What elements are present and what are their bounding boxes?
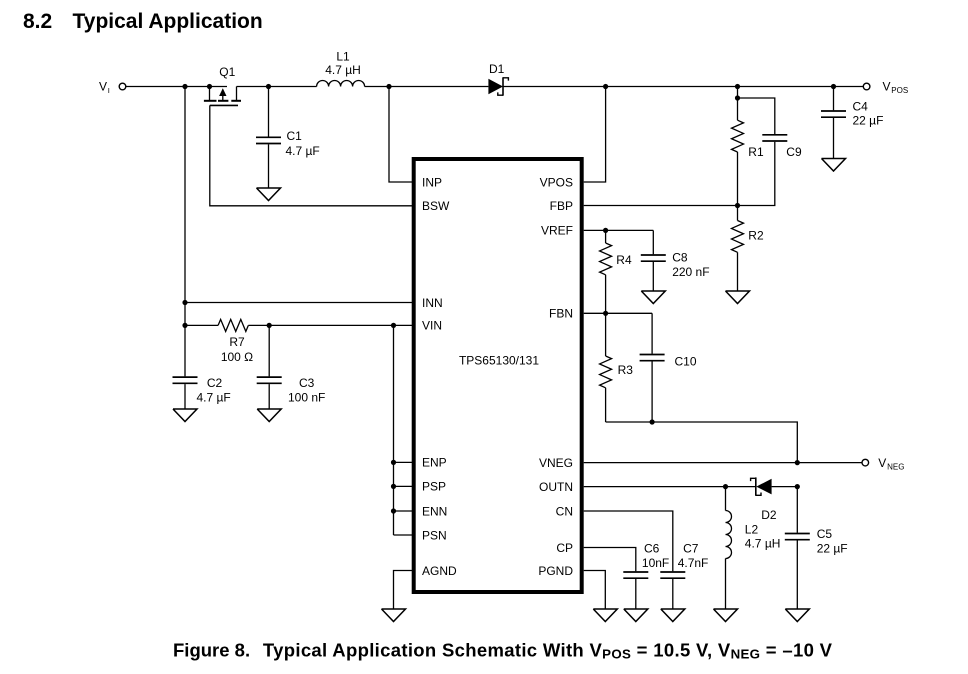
svg-text:220 nF: 220 nF	[672, 265, 709, 279]
svg-text:V: V	[883, 80, 891, 94]
figure caption	[173, 639, 833, 661]
svg-text:PSN: PSN	[422, 528, 447, 542]
section heading 8.2 Typical Application	[23, 10, 263, 33]
ground below R2	[726, 291, 750, 304]
wire D2 anode to VNEG node	[772, 486, 798, 488]
resistor R7	[218, 319, 253, 364]
transistor Q1 PMOS	[204, 65, 241, 105]
node VNEG output terminal	[862, 456, 904, 472]
svg-text:D2: D2	[761, 508, 777, 522]
svg-text:VREF: VREF	[541, 224, 573, 238]
ground below C1	[257, 188, 281, 201]
svg-text:4.7nF: 4.7nF	[678, 556, 709, 570]
svg-text:C2: C2	[207, 376, 223, 390]
ground below C2	[173, 409, 197, 422]
wire PSP stub	[394, 485, 414, 487]
junction dot VIN tee	[182, 323, 187, 328]
wire CN pin to C7	[584, 511, 673, 571]
svg-text:8.2: 8.2	[23, 10, 52, 33]
svg-text:4.7 µH: 4.7 µH	[745, 537, 781, 551]
wire enable branch vertical	[393, 325, 395, 535]
svg-text:VNEG: VNEG	[539, 456, 573, 470]
wire VIN rail left	[185, 324, 218, 326]
svg-text:V: V	[878, 456, 886, 470]
svg-text:C4: C4	[853, 100, 869, 114]
ground AGND	[382, 609, 406, 622]
inductor L2	[726, 487, 781, 609]
wire Vi branch vertical	[184, 87, 186, 377]
svg-text:PSP: PSP	[422, 480, 446, 494]
junction dot FBP node	[735, 203, 740, 208]
junction dot VPOS pin branch	[603, 84, 608, 89]
wire VREF pin rail	[584, 229, 654, 231]
junction dot C9 split	[735, 95, 740, 100]
junction dot VREF R4	[603, 228, 608, 233]
wire VNEG pin rail	[584, 462, 863, 464]
wire FBN network to VNEG node	[606, 422, 798, 463]
wire FBN pin rail	[584, 312, 652, 314]
wire INN pin rail	[185, 302, 414, 304]
svg-text:22 µF: 22 µF	[817, 542, 848, 556]
svg-text:TPS65130/131: TPS65130/131	[459, 354, 539, 368]
IC U1 right pin labels	[538, 175, 573, 578]
wire ENN stub	[394, 510, 414, 512]
junction dot INN tee	[182, 300, 187, 305]
svg-text:CP: CP	[556, 541, 573, 555]
wire FBP pin rail	[584, 205, 738, 207]
svg-text:C9: C9	[786, 145, 802, 159]
svg-text:OUTN: OUTN	[539, 480, 573, 494]
IC U1 left pin labels	[422, 175, 457, 578]
svg-text:10nF: 10nF	[642, 556, 669, 570]
junction dot ENP	[391, 460, 396, 465]
svg-text:L1: L1	[336, 50, 350, 64]
svg-text:Q1: Q1	[219, 65, 235, 79]
wire ENP stub	[394, 461, 414, 463]
ground below C6	[624, 609, 648, 622]
ground PGND	[593, 609, 617, 622]
resistor R1	[732, 120, 764, 159]
capacitor C7	[660, 542, 708, 610]
wire VPOS pin to top rail	[584, 87, 606, 183]
svg-text:R7: R7	[229, 335, 245, 349]
inductor L1	[317, 50, 365, 87]
diode D2 schottky	[751, 477, 777, 522]
svg-text:V: V	[99, 80, 107, 94]
svg-text:CN: CN	[556, 504, 573, 518]
svg-text:FBP: FBP	[550, 199, 573, 213]
svg-text:22 µF: 22 µF	[853, 114, 884, 128]
svg-text:PGND: PGND	[538, 564, 573, 578]
svg-text:4.7 µH: 4.7 µH	[325, 63, 361, 77]
capacitor C1	[256, 87, 320, 189]
capacitor C2	[173, 376, 231, 409]
ground below C4	[822, 159, 846, 172]
resistor R4	[600, 230, 632, 313]
junction dot VNEG node	[795, 460, 800, 465]
junction dot C10 bottom	[650, 419, 655, 424]
junction dot Q1 source	[207, 84, 212, 89]
svg-text:INP: INP	[422, 175, 442, 189]
svg-text:VIN: VIN	[422, 319, 442, 333]
junction dot C4 branch	[831, 84, 836, 89]
wire PGND pin to ground	[584, 571, 606, 610]
resistor R2	[732, 206, 764, 292]
junction dot R1 branch	[735, 84, 740, 89]
svg-text:C3: C3	[299, 376, 315, 390]
svg-text:R4: R4	[616, 253, 632, 267]
junction dot enable branch tee	[391, 323, 396, 328]
wire PSN stub	[394, 534, 414, 536]
svg-text:D1: D1	[489, 62, 505, 76]
junction dot INP branch	[386, 84, 391, 89]
wire Q1 drain to L1	[237, 86, 317, 88]
svg-text:BSW: BSW	[422, 199, 450, 213]
IC U1 TPS65130/131 body	[414, 159, 582, 592]
svg-text:NEG: NEG	[887, 463, 904, 472]
junction dot L2 branch	[723, 484, 728, 489]
wire D1 cathode to Vpos terminal	[503, 86, 864, 88]
capacitor C9	[738, 98, 802, 206]
junction dot ENN	[391, 508, 396, 513]
svg-text:4.7 µF: 4.7 µF	[197, 391, 231, 405]
svg-text:AGND: AGND	[422, 564, 457, 578]
svg-text:100 Ω: 100 Ω	[221, 350, 253, 364]
ground below C8	[641, 291, 665, 304]
wire AGND pin to ground	[394, 571, 414, 610]
junction dot Vi branch	[182, 84, 187, 89]
capacitor C4	[821, 87, 883, 159]
ground below C3	[257, 409, 281, 422]
svg-text:C8: C8	[672, 251, 688, 265]
svg-text:C7: C7	[683, 542, 699, 556]
ground below C5	[785, 609, 809, 622]
capacitor C8	[641, 230, 710, 291]
capacitor C3	[257, 325, 326, 409]
svg-text:L2: L2	[745, 523, 759, 537]
wire VIN rail right	[248, 324, 413, 326]
svg-text:INN: INN	[422, 296, 443, 310]
svg-text:C5: C5	[817, 527, 833, 541]
junction dot FBN R3	[603, 311, 608, 316]
svg-text:VPOS: VPOS	[540, 175, 573, 189]
svg-text:100 nF: 100 nF	[288, 391, 325, 405]
junction dot C3 tee	[267, 323, 272, 328]
wire R1 to FBP node	[737, 152, 739, 206]
wire CP pin to C6	[584, 548, 636, 572]
ground below C7	[661, 609, 685, 622]
diode D1 schottky	[488, 62, 508, 96]
wire L1 to D1 anode	[365, 86, 489, 88]
svg-text:R1: R1	[748, 145, 764, 159]
resistor R3	[600, 313, 634, 422]
junction dot PSP	[391, 484, 396, 489]
wire OUTN pin to D2 cathode	[584, 486, 756, 488]
svg-text:POS: POS	[891, 86, 908, 95]
svg-text:FBN: FBN	[549, 307, 573, 321]
capacitor C10	[640, 313, 697, 422]
capacitor C6	[623, 542, 669, 610]
wire top rail to R1	[737, 87, 739, 121]
svg-text:ENN: ENN	[422, 504, 447, 518]
svg-text:ENP: ENP	[422, 456, 447, 470]
svg-text:Figure 8.: Figure 8.	[173, 639, 250, 660]
svg-text:R2: R2	[748, 229, 764, 243]
node VPOS output terminal	[863, 80, 908, 96]
junction dot C1 branch	[266, 84, 271, 89]
svg-text:Typical Application: Typical Application	[73, 10, 263, 33]
svg-text:4.7 µF: 4.7 µF	[286, 144, 320, 158]
svg-text:C1: C1	[287, 129, 303, 143]
wire Q1 gate to BSW pin	[210, 105, 414, 205]
ground below L2	[714, 609, 738, 622]
node Vi input terminal	[99, 80, 126, 96]
svg-text:C10: C10	[675, 355, 697, 369]
capacitor C5	[785, 487, 848, 609]
wire INP branch	[389, 87, 414, 183]
svg-text:R3: R3	[618, 363, 634, 377]
junction dot D2 anode node	[795, 484, 800, 489]
svg-text:I: I	[108, 86, 110, 95]
svg-text:C6: C6	[644, 542, 660, 556]
wire Vi to Q1 source	[126, 86, 227, 88]
